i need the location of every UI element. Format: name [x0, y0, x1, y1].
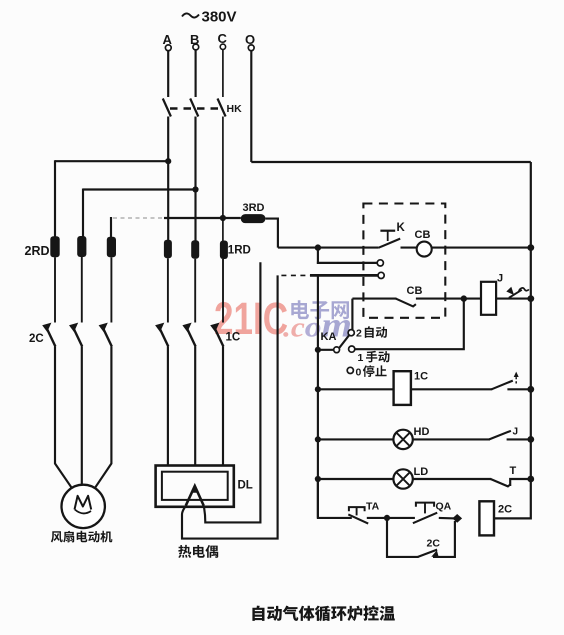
contact J blade (rung4): [489, 431, 511, 440]
wire phase B below HK: [194, 117, 196, 241]
contact 2C blade (holding): [418, 550, 437, 557]
wire branch C faded segment: [113, 217, 164, 219]
terminal K upper: [377, 260, 383, 266]
wire phase B drop: [195, 50, 197, 97]
wire 2C pole1 to motor: [55, 347, 72, 488]
svg-text:3RD: 3RD: [243, 202, 265, 214]
svg-text:2C: 2C: [427, 538, 441, 550]
furnace DL inner box: [162, 472, 228, 500]
svg-text:2C: 2C: [29, 333, 44, 345]
wire rung3 left: [318, 388, 395, 390]
wire rung2 left: [352, 298, 396, 300]
node A branch: [165, 158, 171, 164]
wire right bus (neutral): [494, 162, 531, 518]
wire rung5 middle: [413, 478, 491, 480]
wire furnace L2 fuse to 1C: [194, 259, 196, 323]
wire branch B to motor feeder L2: [83, 188, 196, 190]
contact J blade (rung3): [492, 381, 513, 390]
wire neutral O top run: [251, 161, 531, 163]
node holding branch right (diamond): [452, 514, 462, 523]
motor M symbol: [75, 496, 92, 510]
node rung4 right bus: [527, 436, 534, 443]
coil 2C: [479, 501, 494, 535]
thermocouple caret: [186, 486, 204, 506]
wire furnace L1 fuse to 1C: [167, 258, 169, 322]
node rung5 right bus: [527, 476, 534, 483]
button TA blade: [348, 514, 368, 523]
wire phase A drop: [167, 51, 169, 97]
node control feed right bus: [527, 244, 534, 251]
terminal O: [248, 45, 254, 51]
switch KA position 1 terminal: [349, 346, 355, 352]
contact 1C pole 2: [186, 326, 196, 347]
contact K actuator T-bar: [380, 230, 395, 232]
svg-text:HD: HD: [414, 426, 430, 438]
wire motor feeder L3 drop: [110, 217, 112, 237]
switch HK tie bar (dashed): [170, 107, 224, 109]
wire 2C pole3 to motor: [95, 347, 111, 488]
node rung2 manual join: [461, 295, 467, 301]
switch KA stub: [318, 349, 334, 351]
svg-text:380V: 380V: [202, 9, 237, 26]
wire rung4 middle: [413, 438, 490, 440]
caption zidong qiti xunhuan lu kongwen: [252, 606, 394, 622]
switch HK pole B blade: [190, 99, 198, 117]
fuse 1RD pole 1: [164, 240, 172, 258]
contact 1C pole 1: [158, 326, 168, 347]
wire 2C pole2 to motor: [81, 347, 83, 485]
label ~380V: [182, 13, 199, 17]
fuse 1RD pole 2: [191, 240, 199, 259]
wire left bus upper stub: [317, 248, 319, 264]
svg-text:0: 0: [356, 367, 362, 379]
wire 1C pole1 to DL: [167, 347, 169, 467]
contact 2C pole 1: [45, 326, 55, 347]
watermark dianziwang: [291, 300, 349, 319]
wire motor feeder L2 drop: [82, 189, 84, 237]
wire rung2 right: [496, 298, 531, 300]
terminal K lower: [378, 272, 384, 278]
wire furnace L3 fuse to 1C: [222, 259, 224, 323]
wire rung5 left: [318, 478, 394, 480]
svg-text:CB: CB: [407, 285, 423, 297]
wire rung4 right: [507, 438, 531, 440]
wire phase C below HK: [222, 117, 224, 242]
svg-text:1: 1: [358, 352, 364, 364]
fuse 2RD pole 3: [107, 237, 116, 257]
wire phase C drop: [222, 50, 224, 97]
svg-text:2RD: 2RD: [25, 244, 50, 258]
wire KA position 2 riser: [351, 299, 353, 330]
contact J dotted arrow: [515, 376, 517, 384]
furnace DL outer box: [156, 466, 234, 507]
switch KA blade: [339, 336, 349, 348]
svg-text:2C: 2C: [498, 504, 512, 516]
wire motor L2 fuse to 2C: [81, 257, 83, 323]
thermocouple label rediaoou: [178, 545, 218, 558]
contact 1C pole 3: [213, 326, 223, 347]
svg-text:QA: QA: [436, 501, 452, 513]
contact CB blade: [396, 299, 416, 307]
svg-text:T: T: [510, 465, 517, 477]
switch HK pole C blade: [218, 99, 226, 117]
thermocouple lead 1 (outer): [182, 275, 278, 538]
node B branch: [192, 186, 198, 192]
svg-text:TA: TA: [366, 501, 380, 513]
wire motor feeder L1 drop: [54, 160, 56, 236]
switch KA position 2 terminal: [348, 330, 354, 336]
terminal A: [165, 45, 171, 51]
node rung5 left bus: [315, 476, 321, 482]
contact T blade (rung5): [491, 479, 511, 486]
contact 2C pole 2: [72, 326, 82, 347]
switch HK pole A blade: [163, 99, 171, 117]
svg-text:1C: 1C: [414, 371, 428, 383]
coil 1C: [394, 371, 411, 405]
contact K blade: [378, 239, 400, 248]
fuse 3RD body: [241, 214, 266, 223]
wire QA to node: [439, 517, 456, 520]
svg-text:J: J: [497, 273, 503, 285]
svg-text:1C: 1C: [226, 332, 241, 344]
wire K terminal stub upper: [317, 262, 378, 264]
wire holding loop right: [433, 521, 455, 557]
wire motor L3 fuse to 2C: [110, 257, 112, 322]
wire K to right bus: [401, 247, 531, 249]
indicator CB circle: [417, 242, 432, 257]
wire left control bus: [317, 275, 319, 518]
contact 2C pole 3: [102, 326, 112, 347]
motor M circle: [61, 485, 104, 528]
wire neutral O drop: [250, 51, 252, 162]
wire rung2 middle: [416, 298, 481, 300]
wire 1C pole2 to DL: [194, 347, 196, 467]
wire branch A to motor feeder L1: [55, 160, 168, 162]
svg-text:J: J: [513, 427, 519, 438]
wire 3RD to control corner: [265, 219, 278, 248]
wire rung5 right: [510, 479, 531, 486]
fuse 2RD pole 2: [77, 236, 86, 257]
button QA blade: [413, 513, 437, 524]
svg-text:1RD: 1RD: [228, 245, 251, 257]
node KA on left bus: [315, 347, 321, 353]
terminal B: [193, 44, 199, 50]
lamp HD: [393, 430, 412, 449]
controller CB dashed box: [363, 204, 445, 318]
svg-text:KA: KA: [321, 331, 337, 343]
wire KA position 1 (manual): [355, 299, 464, 350]
lamp LD: [393, 469, 412, 488]
node control feed: [315, 244, 321, 250]
node rung3 left bus: [315, 386, 321, 392]
switch KA position 0 terminal: [347, 367, 353, 373]
switch KA hinge: [334, 347, 340, 353]
svg-text:DL: DL: [238, 480, 253, 492]
wire K terminal stub lower (dashes): [281, 274, 311, 276]
wire control phase (3RD output) to K: [278, 247, 379, 249]
thermocouple lead 2 (inner): [204, 262, 261, 522]
node holding branch left: [384, 515, 390, 521]
wire branch C to motor feeder L3 and 3RD: [164, 217, 241, 219]
wire rung4 left: [318, 438, 394, 440]
node rung3 right bus: [527, 386, 534, 393]
fuse 1RD pole 3: [220, 241, 228, 260]
svg-text:HK: HK: [227, 103, 243, 115]
wire phase A below HK: [167, 117, 169, 241]
terminal C: [220, 44, 225, 49]
wire holding loop left and bottom: [387, 518, 419, 557]
node C branch: [220, 215, 226, 221]
wire rung3 right: [507, 388, 530, 390]
wire motor L1 fuse to 2C: [54, 257, 56, 322]
wire bottom rung left: [318, 479, 352, 518]
node rung4 left bus: [315, 436, 321, 442]
wire 1C pole3 to DL: [222, 347, 224, 467]
temperature arrow symbol: [509, 290, 522, 298]
svg-text:2: 2: [356, 328, 362, 340]
motor label fengshan diandongji: [51, 531, 113, 543]
wire rung3 middle: [411, 388, 492, 390]
fuse 2RD pole 1: [50, 236, 59, 257]
button QA cap: [416, 503, 434, 507]
node rung2 right bus: [527, 295, 534, 302]
svg-text:K: K: [397, 222, 406, 234]
wire K terminal stub lower: [310, 274, 378, 277]
svg-text:CB: CB: [415, 229, 431, 241]
svg-text:LD: LD: [414, 466, 429, 478]
relay coil J: [481, 282, 496, 315]
button TA cap: [349, 507, 365, 511]
wire TA to QA: [367, 517, 415, 519]
